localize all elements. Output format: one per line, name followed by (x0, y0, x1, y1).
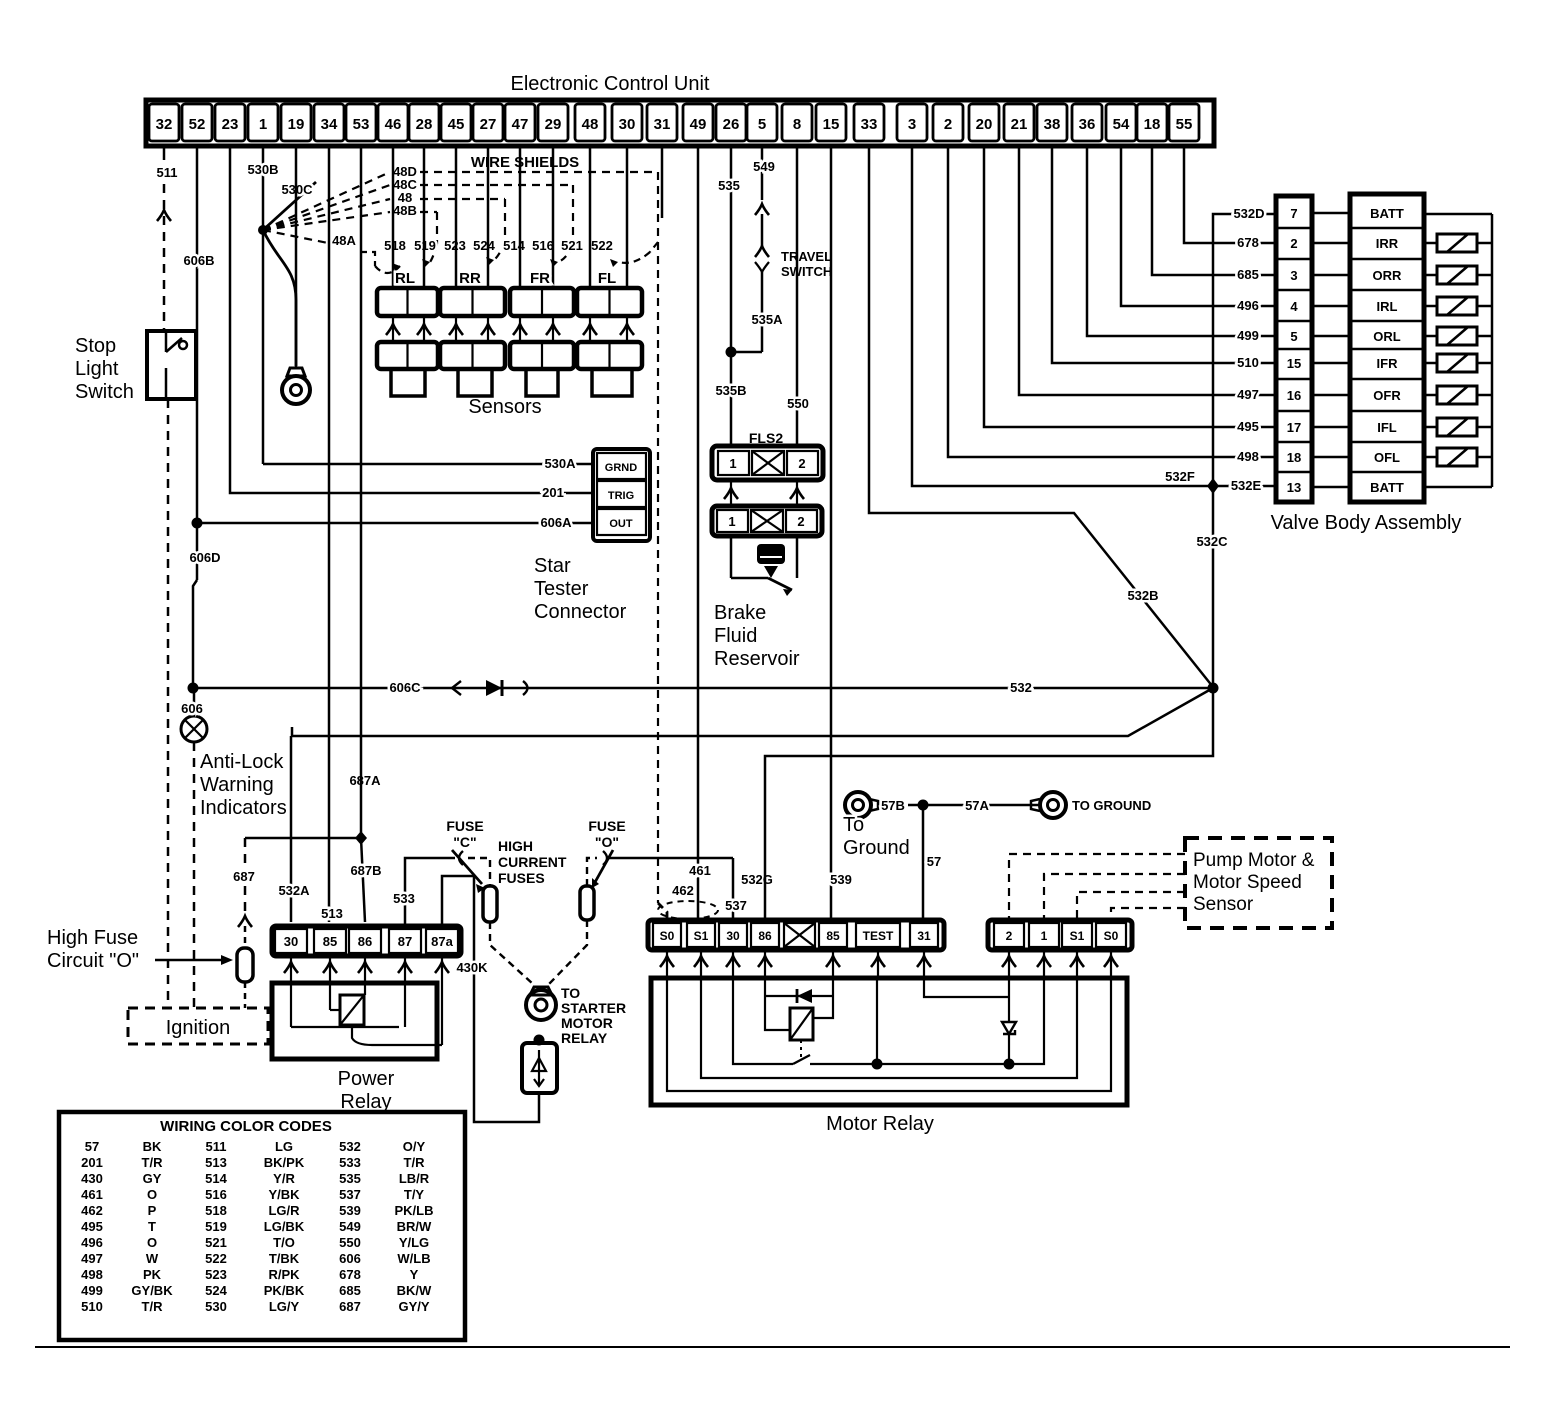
svg-text:497: 497 (1237, 387, 1259, 402)
svg-text:685: 685 (1237, 267, 1259, 282)
stub to valve row 17 (1312, 426, 1350, 429)
wire 678 (1184, 146, 1276, 243)
indicator lamp 606 (181, 716, 207, 742)
svg-text:537: 537 (339, 1187, 361, 1202)
solenoid IRR (1424, 242, 1437, 245)
svg-text:STARTER: STARTER (561, 1000, 626, 1016)
wire S1-S1 (701, 978, 1077, 1078)
svg-text:5: 5 (758, 116, 766, 133)
ring terminal to ground (1040, 792, 1066, 818)
svg-text:495: 495 (1237, 419, 1259, 434)
sensor RR body tab (458, 369, 492, 396)
wire 539 from pin 15 to motor relay 85 (830, 146, 833, 922)
svg-text:461: 461 (689, 863, 711, 878)
svg-text:535: 535 (718, 178, 740, 193)
wire 495 (984, 146, 1276, 427)
svg-text:PK: PK (143, 1267, 162, 1282)
shield pigtail RL (375, 266, 400, 273)
svg-text:524: 524 (205, 1283, 227, 1298)
svg-text:T/R: T/R (404, 1155, 426, 1170)
svg-text:518: 518 (205, 1203, 227, 1218)
wire 606B from pin 52 (196, 146, 199, 523)
svg-text:HIGH: HIGH (498, 838, 533, 854)
wire 687 horizontal (245, 837, 361, 840)
ECU pin 55 (1169, 104, 1199, 141)
fuse to ignition dashed (244, 982, 247, 1008)
svg-text:606B: 606B (183, 253, 214, 268)
sensor RR lower connector (440, 342, 505, 369)
svg-text:54: 54 (1113, 116, 1130, 133)
svg-text:532G: 532G (741, 872, 773, 887)
svg-text:MOTOR: MOTOR (561, 1015, 613, 1031)
relay armature link dotted (800, 1040, 802, 1060)
svg-text:5: 5 (1290, 329, 1297, 344)
svg-text:1: 1 (728, 514, 735, 529)
node 532 junction (1208, 683, 1219, 694)
svg-text:FL: FL (598, 270, 616, 287)
diode in motor relay (765, 995, 833, 997)
svg-text:O: O (147, 1187, 157, 1202)
wire 549 from pin 5 (761, 146, 764, 200)
svg-text:S1: S1 (1070, 929, 1085, 943)
solenoid IFL (1424, 426, 1437, 429)
wire 530C (263, 182, 316, 230)
svg-text:GY: GY (143, 1171, 162, 1186)
svg-text:GY/BK: GY/BK (131, 1283, 173, 1298)
svg-text:T: T (148, 1219, 156, 1234)
svg-text:678: 678 (1237, 235, 1259, 250)
connector on 549 (755, 204, 769, 215)
wire 533 from power relay 87 (405, 858, 455, 926)
sensor FL harness wires (589, 316, 591, 342)
ECU pin 33 (854, 104, 884, 141)
svg-text:31: 31 (917, 929, 931, 943)
wire 462 dashed (shield) continues at x=658 drawn above (658, 903, 667, 920)
solenoid OFL (1424, 456, 1437, 459)
fuse (high fuse circuit O) (237, 948, 253, 982)
svg-text:57B: 57B (881, 798, 905, 813)
power relay box (272, 983, 437, 1059)
svg-text:201: 201 (81, 1155, 103, 1170)
wire shield drain to ring terminal (263, 230, 296, 366)
ECU connector U1 outer box (146, 100, 1214, 146)
svg-text:533: 533 (339, 1155, 361, 1170)
svg-text:LG/BK: LG/BK (264, 1219, 305, 1234)
ECU pin 27 (473, 104, 503, 141)
svg-text:15: 15 (1287, 356, 1301, 371)
sensor RL harness wires (392, 316, 394, 342)
svg-text:T/R: T/R (142, 1155, 164, 1170)
svg-text:513: 513 (321, 906, 343, 921)
FLS2 harness wire 1 (730, 480, 732, 506)
svg-text:Ignition: Ignition (166, 1017, 231, 1039)
svg-text:522: 522 (205, 1251, 227, 1266)
svg-text:BK: BK (143, 1139, 162, 1154)
dashed oval on S0/S1 wires (658, 901, 718, 919)
svg-text:31: 31 (654, 116, 671, 133)
dashed wire lamp to ignition (193, 742, 196, 1008)
shield 48B dashed (420, 211, 437, 213)
svg-text:55: 55 (1176, 116, 1193, 133)
ECU pin 48 (575, 104, 605, 141)
svg-text:57: 57 (927, 854, 941, 869)
wire S0-S0 (667, 978, 1111, 1091)
motor relay box (651, 978, 1127, 1105)
sensor RL upper connector (377, 288, 438, 316)
48A dashed into RL shield (360, 252, 375, 266)
svg-text:34: 34 (321, 116, 338, 133)
connector arrow on 511 (157, 210, 171, 221)
solenoid ORR (1424, 274, 1437, 277)
node zener junction (1004, 1059, 1015, 1070)
FLS2 upper connector (712, 446, 823, 480)
shield 48 dashed (420, 198, 505, 200)
relay contact blade (793, 1055, 810, 1064)
sensor RR upper connector (440, 288, 505, 316)
svg-text:2: 2 (797, 514, 804, 529)
svg-text:29: 29 (545, 116, 562, 133)
wire 687A from pin 53 (360, 146, 363, 838)
shield pigtail RR-left (430, 244, 437, 262)
wire 606D down (196, 523, 199, 580)
svg-text:1: 1 (729, 456, 736, 471)
wire 499 (1087, 146, 1276, 336)
svg-text:532C: 532C (1196, 534, 1228, 549)
svg-text:550: 550 (787, 396, 809, 411)
svg-text:Reservoir: Reservoir (714, 648, 800, 670)
svg-text:533: 533 (393, 891, 415, 906)
svg-text:Switch: Switch (75, 381, 134, 403)
svg-text:15: 15 (823, 116, 840, 133)
svg-text:Sensors: Sensors (468, 396, 541, 418)
bottom rule (35, 1346, 1510, 1348)
svg-text:OUT: OUT (609, 518, 633, 530)
svg-text:678: 678 (339, 1267, 361, 1282)
svg-text:462: 462 (81, 1203, 103, 1218)
svg-text:550: 550 (339, 1235, 361, 1250)
svg-text:86: 86 (358, 934, 372, 949)
wire 57 to motor relay 31 (922, 805, 925, 922)
motor relay left connector (648, 920, 944, 950)
svg-text:W/LB: W/LB (397, 1251, 430, 1266)
svg-text:499: 499 (1237, 328, 1259, 343)
shield dashed down to motor relay (462) (657, 172, 659, 903)
svg-text:499: 499 (81, 1283, 103, 1298)
svg-text:532B: 532B (1127, 588, 1158, 603)
wire shields dashed fan from node 530 (263, 172, 390, 230)
svg-text:Valve Body Assembly: Valve Body Assembly (1271, 512, 1462, 534)
sensor RR harness wires (455, 316, 457, 342)
svg-text:GRND: GRND (605, 462, 637, 474)
svg-text:Circuit "O": Circuit "O" (47, 950, 139, 972)
BATT top feed (1424, 213, 1492, 216)
svg-text:IFR: IFR (1377, 356, 1399, 371)
valve body pin connector (1276, 196, 1312, 502)
node 535 junction (726, 347, 737, 358)
svg-text:685: 685 (339, 1283, 361, 1298)
wire 201 from pin 23 (230, 146, 232, 493)
svg-text:RELAY: RELAY (561, 1030, 608, 1046)
svg-text:530: 530 (205, 1299, 227, 1314)
svg-text:PK/BK: PK/BK (264, 1283, 305, 1298)
ring terminal 57B (845, 792, 871, 818)
svg-text:606C: 606C (389, 680, 421, 695)
svg-text:Y: Y (410, 1267, 419, 1282)
wire 86 to coil (765, 978, 790, 1030)
svg-text:2: 2 (798, 456, 805, 471)
wire 685 (1152, 146, 1276, 275)
svg-text:High Fuse: High Fuse (47, 927, 138, 949)
svg-text:2: 2 (1290, 236, 1297, 251)
svg-text:Tester: Tester (534, 578, 589, 600)
svg-text:201: 201 (542, 485, 564, 500)
sensor FL lower connector (577, 342, 642, 369)
motor relay coil (790, 1008, 813, 1040)
svg-text:FR: FR (530, 270, 550, 287)
wire 461/537 bus from pin 49 to motor relay S1 (697, 146, 700, 922)
svg-text:498: 498 (81, 1267, 103, 1282)
svg-text:26: 26 (723, 116, 740, 133)
ECU pin 23 (215, 104, 245, 141)
svg-text:OFL: OFL (1374, 450, 1400, 465)
motor relay X cell (784, 923, 815, 947)
stub to valve row 3 (1312, 274, 1350, 277)
fuse C to starter ring dashed (490, 922, 533, 984)
stub to valve row 16 (1312, 394, 1350, 397)
svg-text:S0: S0 (1104, 929, 1119, 943)
wire 537 to motor relay 30 (732, 858, 735, 922)
svg-text:510: 510 (1237, 355, 1259, 370)
svg-text:530B: 530B (247, 162, 278, 177)
ECU pin 46 (378, 104, 408, 141)
wire 535A joins 535 (731, 351, 762, 354)
svg-text:PK/LB: PK/LB (395, 1203, 434, 1218)
star tester connector (593, 449, 650, 541)
shield pigtail RR (494, 242, 505, 260)
svg-text:32: 32 (156, 116, 173, 133)
svg-text:33: 33 (861, 116, 878, 133)
svg-text:511: 511 (206, 1139, 227, 1154)
stub to valve row 18 (1312, 456, 1350, 459)
wire 511 stub from pin 32 (163, 146, 166, 160)
svg-text:Relay: Relay (340, 1091, 391, 1113)
ECU pin 19 (281, 104, 311, 141)
svg-text:430: 430 (81, 1171, 103, 1186)
wire 687 dashed down (244, 838, 247, 915)
wire from switch to ignition (dashed) (167, 399, 170, 1008)
sensor FR upper connector (510, 288, 574, 316)
dashed wires pump motor to motor relay (1009, 854, 1185, 920)
svg-text:T/Y: T/Y (404, 1187, 425, 1202)
solenoid OFR (1424, 394, 1437, 397)
svg-text:W: W (146, 1251, 159, 1266)
svg-text:606: 606 (181, 701, 203, 716)
wire 532B from pin 33 (869, 146, 1213, 687)
ECU pin 18 (1137, 104, 1167, 141)
wire 606A to star tester OUT (197, 522, 593, 525)
svg-text:606: 606 (339, 1251, 361, 1266)
svg-text:Pump Motor &: Pump Motor & (1193, 850, 1315, 871)
wire 85 to coil (813, 978, 833, 1018)
svg-text:OFR: OFR (1373, 388, 1401, 403)
shield pigtail FR (558, 246, 573, 262)
fusible link (534, 1035, 545, 1046)
svg-text:53: 53 (353, 116, 370, 133)
wire 30 to contact (733, 978, 793, 1064)
wire TEST (876, 978, 878, 1064)
svg-text:687: 687 (339, 1299, 361, 1314)
inline connector + diode on 606C (452, 681, 461, 695)
svg-text:Indicators: Indicators (200, 797, 287, 819)
svg-text:516: 516 (205, 1187, 227, 1202)
svg-text:"O": "O" (595, 834, 619, 850)
svg-text:462: 462 (672, 883, 694, 898)
svg-text:49: 49 (690, 116, 707, 133)
svg-text:497: 497 (81, 1251, 103, 1266)
svg-text:Y/R: Y/R (273, 1171, 295, 1186)
svg-text:57: 57 (85, 1139, 99, 1154)
svg-text:535B: 535B (715, 383, 746, 398)
svg-text:13: 13 (1287, 480, 1301, 495)
svg-text:BATT: BATT (1370, 206, 1404, 221)
wire 532A down to power relay 30 (290, 736, 293, 922)
svg-text:430K: 430K (456, 960, 488, 975)
svg-text:SWITCH: SWITCH (781, 264, 832, 279)
svg-text:Fluid: Fluid (714, 625, 757, 647)
svg-text:Power: Power (338, 1068, 395, 1090)
wire 57A (908, 804, 1040, 807)
svg-text:LG: LG (275, 1139, 293, 1154)
svg-text:8: 8 (793, 116, 801, 133)
sensor FR lower connector (510, 342, 574, 369)
svg-text:20: 20 (976, 116, 993, 133)
ECU pin 5 (747, 104, 777, 141)
svg-text:52: 52 (189, 116, 206, 133)
svg-text:45: 45 (448, 116, 465, 133)
svg-text:47: 47 (512, 116, 529, 133)
ECU pin 52 (182, 104, 212, 141)
svg-text:Motor Relay: Motor Relay (826, 1113, 934, 1135)
svg-text:516: 516 (532, 238, 554, 253)
ECU pin 29 (538, 104, 568, 141)
svg-text:Connector: Connector (534, 601, 627, 623)
wire 513 from pin 34 to power relay 85 (328, 146, 331, 922)
wire 535/535B from pin 26 to FLS2 pin 1 (730, 146, 733, 446)
svg-text:LG/R: LG/R (268, 1203, 300, 1218)
wiring color codes table (59, 1112, 465, 1340)
svg-text:522: 522 (591, 238, 613, 253)
travel switch (755, 246, 769, 257)
svg-text:30: 30 (619, 116, 636, 133)
svg-text:TEST: TEST (863, 929, 894, 943)
svg-text:R/PK: R/PK (268, 1267, 300, 1282)
fluid symbol line (760, 550, 782, 552)
svg-text:23: 23 (222, 116, 239, 133)
svg-text:687: 687 (233, 869, 255, 884)
FLS2 harness wire 2 (796, 480, 798, 506)
svg-text:524: 524 (473, 238, 495, 253)
svg-text:O/Y: O/Y (403, 1139, 426, 1154)
shield pigtail FL (650, 242, 658, 252)
pump motor & speed sensor box (1185, 838, 1332, 928)
ring terminal to starter motor relay (530, 987, 552, 995)
svg-text:18: 18 (1144, 116, 1161, 133)
stub to valve row 2 (1312, 242, 1350, 245)
wire 31 to zener branch (924, 978, 1009, 997)
motor relay right connector (988, 920, 1132, 950)
svg-text:16: 16 (1287, 388, 1301, 403)
node 530 junction (258, 225, 268, 235)
svg-text:606D: 606D (189, 550, 220, 565)
svg-text:To: To (843, 814, 864, 836)
svg-text:RL: RL (395, 270, 415, 287)
svg-text:ORR: ORR (1373, 268, 1403, 283)
power relay coil (340, 995, 364, 1025)
svg-text:87a: 87a (431, 934, 453, 949)
wire from ECU to sensor FL (left) (589, 146, 592, 288)
zener diode (1002, 1022, 1016, 1034)
fluid level sensor symbol (730, 536, 733, 578)
svg-text:57A: 57A (965, 798, 989, 813)
svg-text:1: 1 (259, 116, 267, 133)
ECU pin 15 (816, 104, 846, 141)
svg-text:48A: 48A (332, 233, 356, 248)
svg-text:FUSE: FUSE (588, 818, 625, 834)
svg-text:48B: 48B (393, 203, 417, 218)
svg-text:514: 514 (205, 1171, 227, 1186)
svg-text:3: 3 (1290, 268, 1297, 283)
svg-text:4: 4 (1290, 299, 1298, 314)
svg-text:Electronic Control Unit: Electronic Control Unit (511, 73, 710, 95)
wire 532F from pin 3 of ECU (912, 146, 1276, 486)
ECU pin 38 (1037, 104, 1067, 141)
svg-text:IFL: IFL (1377, 420, 1397, 435)
svg-text:Y/LG: Y/LG (399, 1235, 429, 1250)
sensor RL lower connector (377, 342, 438, 369)
wire from pin 19 to shield ring (295, 146, 298, 368)
ECU pin 49 (683, 104, 713, 141)
svg-text:FUSE: FUSE (446, 818, 483, 834)
svg-text:521: 521 (561, 238, 583, 253)
svg-text:Brake: Brake (714, 602, 766, 624)
svg-text:1: 1 (1041, 929, 1048, 943)
svg-text:P: P (148, 1203, 157, 1218)
node TEST junction (872, 1059, 883, 1070)
svg-text:532F: 532F (1165, 469, 1195, 484)
svg-text:Ground: Ground (843, 837, 910, 859)
ECU pin 28 (409, 104, 439, 141)
svg-text:2: 2 (944, 116, 952, 133)
ECU pin 21 (1004, 104, 1034, 141)
svg-text:Warning: Warning (200, 774, 274, 796)
ECU pin 45 (441, 104, 471, 141)
wire from ECU to sensor RL (left) (392, 146, 395, 288)
svg-text:LB/R: LB/R (399, 1171, 430, 1186)
svg-text:510: 510 (81, 1299, 103, 1314)
svg-text:521: 521 (205, 1235, 227, 1250)
svg-text:38: 38 (1044, 116, 1061, 133)
svg-text:RR: RR (459, 270, 481, 287)
svg-text:514: 514 (503, 238, 525, 253)
svg-text:537: 537 (725, 898, 747, 913)
shield 48C dashed (420, 184, 573, 186)
wire 496 (1121, 146, 1276, 306)
svg-text:86: 86 (758, 929, 772, 943)
svg-text:TO: TO (561, 985, 580, 1001)
svg-text:535A: 535A (751, 312, 783, 327)
ECU pin 2 (933, 104, 963, 141)
ECU pin 30 (612, 104, 642, 141)
